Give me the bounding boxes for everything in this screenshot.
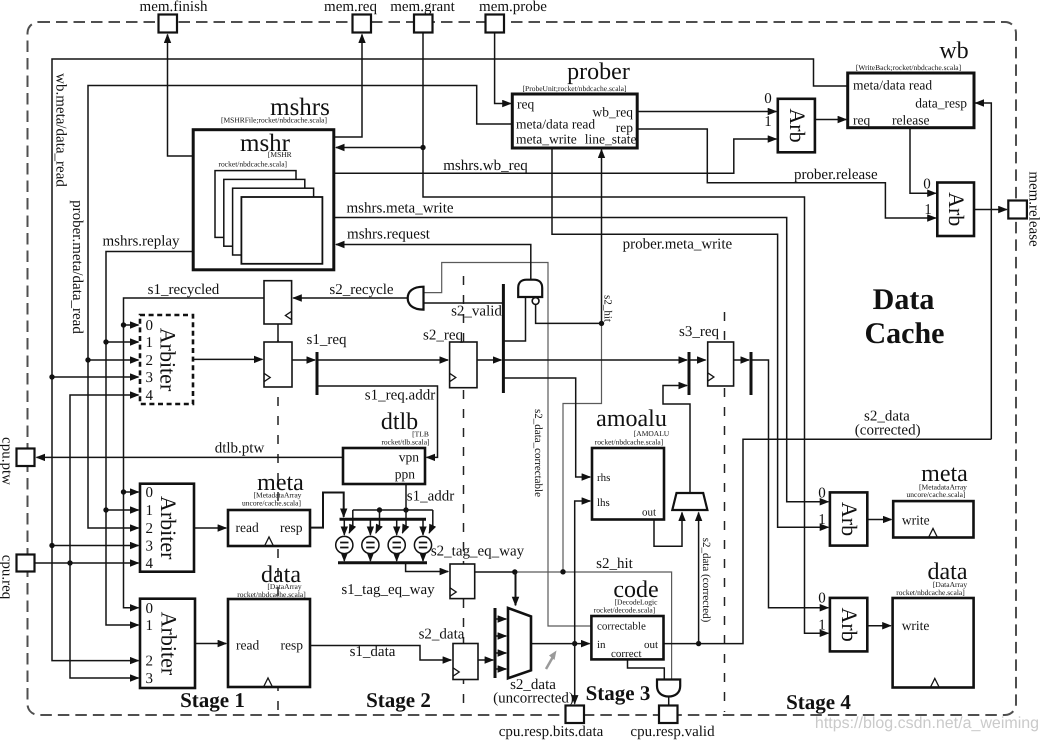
svg-text:Arb: Arb: [944, 192, 969, 226]
svg-text:write: write: [902, 513, 930, 528]
svg-text:uncore/cache.scala]: uncore/cache.scala]: [242, 499, 301, 508]
svg-text:Arb: Arb: [837, 502, 862, 536]
svg-text:req: req: [853, 113, 870, 128]
svg-text:1: 1: [146, 618, 154, 634]
svg-text:3: 3: [146, 370, 154, 386]
svg-text:mem.grant: mem.grant: [390, 0, 455, 15]
svg-text:cpu.req: cpu.req: [0, 555, 15, 600]
svg-text:0: 0: [146, 485, 154, 501]
svg-text:prober: prober: [567, 59, 630, 85]
svg-text:4: 4: [146, 556, 154, 572]
svg-text:prober.meta/data_read: prober.meta/data_read: [69, 200, 85, 334]
svg-text:ppn: ppn: [395, 467, 416, 482]
svg-text:cpu.ptw: cpu.ptw: [0, 437, 15, 485]
svg-text:Data: Data: [873, 283, 935, 316]
svg-text:vpn: vpn: [399, 450, 420, 465]
svg-text:s1_recycled: s1_recycled: [148, 282, 220, 298]
svg-text:wb_req: wb_req: [593, 105, 634, 120]
svg-text:Stage 3: Stage 3: [586, 681, 651, 705]
svg-text:mem.req: mem.req: [324, 0, 377, 15]
svg-text:s1_tag_eq_way: s1_tag_eq_way: [341, 582, 435, 598]
svg-text:Stage 1: Stage 1: [180, 688, 245, 712]
svg-text:rocket/decode.scala]: rocket/decode.scala]: [594, 606, 655, 615]
svg-text:0: 0: [146, 318, 154, 334]
svg-text:read: read: [236, 638, 259, 653]
svg-text:[MSHR: [MSHR: [268, 150, 292, 159]
svg-text:resp: resp: [280, 520, 303, 535]
svg-text:mshrs.meta_write: mshrs.meta_write: [346, 201, 453, 217]
svg-text:s2_hit: s2_hit: [602, 295, 614, 322]
svg-text:1: 1: [146, 503, 154, 519]
svg-text:3: 3: [146, 539, 154, 555]
svg-text:Arb: Arb: [837, 607, 862, 641]
svg-text:rhs: rhs: [597, 472, 610, 484]
svg-text:0: 0: [923, 177, 931, 193]
svg-text:in: in: [597, 639, 606, 651]
svg-text:rocket/nbdcache.scala]: rocket/nbdcache.scala]: [237, 590, 306, 599]
svg-text:release: release: [892, 113, 929, 128]
svg-text:s1_addr: s1_addr: [407, 489, 455, 505]
svg-text:s2_data: s2_data: [419, 627, 465, 643]
svg-text:s1_req.addr: s1_req.addr: [365, 388, 435, 404]
svg-text:0: 0: [818, 591, 826, 607]
svg-text:wb: wb: [939, 38, 968, 64]
svg-text:correctable: correctable: [597, 621, 646, 633]
svg-text:0: 0: [818, 486, 826, 502]
svg-text:Cache: Cache: [865, 317, 945, 350]
svg-text:rocket/nbdcache.scala]: rocket/nbdcache.scala]: [896, 588, 965, 597]
svg-text:req: req: [517, 97, 534, 112]
svg-text:Arbiter: Arbiter: [156, 496, 181, 560]
svg-text:1: 1: [818, 618, 826, 634]
svg-text:write: write: [902, 618, 930, 633]
svg-text:cpu.resp.bits.data: cpu.resp.bits.data: [499, 724, 604, 740]
svg-text:s2_hit: s2_hit: [596, 556, 634, 572]
svg-text:line_state: line_state: [585, 132, 637, 147]
svg-text:s2_valid: s2_valid: [451, 304, 502, 320]
svg-text:rocket/tlb.scala]: rocket/tlb.scala]: [381, 438, 429, 447]
svg-text:mem.probe: mem.probe: [479, 0, 547, 15]
svg-text:wb.meta/data_read: wb.meta/data_read: [53, 73, 69, 187]
svg-text:1: 1: [818, 512, 826, 528]
svg-text:1: 1: [146, 335, 154, 351]
svg-text:1: 1: [764, 114, 772, 130]
svg-text:0: 0: [146, 601, 154, 617]
svg-text:s2_tag_eq_way: s2_tag_eq_way: [431, 544, 525, 560]
svg-text:meta/data read: meta/data read: [853, 78, 932, 93]
svg-text:lhs: lhs: [597, 497, 610, 509]
svg-text:mshrs.wb_req: mshrs.wb_req: [443, 158, 528, 174]
svg-text:Arbiter: Arbiter: [156, 328, 181, 392]
svg-text:prober.release: prober.release: [794, 167, 878, 183]
svg-text:[ProbeUnit;rocket/nbdcache.sca: [ProbeUnit;rocket/nbdcache.scala]: [523, 84, 627, 93]
svg-text:s1_data: s1_data: [350, 644, 396, 660]
svg-text:mem.release: mem.release: [1026, 171, 1042, 247]
svg-text:s2_data (corrected): s2_data (corrected): [700, 538, 712, 623]
svg-text:Arb: Arb: [785, 108, 810, 142]
svg-text:[WriteBack;rocket/nbdcache.sca: [WriteBack;rocket/nbdcache.scala]: [856, 63, 961, 72]
svg-text:3: 3: [146, 671, 154, 687]
svg-text:2: 2: [146, 353, 154, 369]
svg-text:dtlb.ptw: dtlb.ptw: [215, 441, 265, 457]
svg-text:Stage 4: Stage 4: [786, 690, 851, 714]
svg-text:s2_data_correctable: s2_data_correctable: [532, 409, 544, 497]
svg-text:uncore/cache.scala]: uncore/cache.scala]: [907, 490, 966, 499]
svg-text:rocket/nbdcache.scala]: rocket/nbdcache.scala]: [595, 438, 664, 447]
svg-text:0: 0: [764, 91, 772, 107]
svg-text:[MSHRFile;rocket/nbdcache.scal: [MSHRFile;rocket/nbdcache.scala]: [221, 116, 327, 125]
svg-text:prober.meta_write: prober.meta_write: [623, 237, 733, 253]
svg-text:cpu.resp.valid: cpu.resp.valid: [630, 724, 715, 740]
svg-text:(uncorrected): (uncorrected): [493, 691, 574, 707]
svg-text:(corrected): (corrected): [855, 423, 921, 439]
svg-text:out: out: [642, 507, 656, 519]
svg-text:read: read: [236, 520, 259, 535]
svg-text:2: 2: [146, 654, 154, 670]
svg-text:resp: resp: [281, 638, 304, 653]
svg-text:correct: correct: [611, 648, 642, 660]
svg-text:s2_recycle: s2_recycle: [329, 282, 393, 298]
svg-text:meta_write: meta_write: [516, 132, 577, 147]
svg-text:Arbiter: Arbiter: [157, 612, 182, 676]
svg-text:meta/data read: meta/data read: [516, 117, 595, 132]
svg-text:out: out: [644, 639, 658, 651]
svg-text:rocket/nbdcache.scala]: rocket/nbdcache.scala]: [219, 160, 288, 169]
svg-text:https://blog.csdn.net/a_weimin: https://blog.csdn.net/a_weiming: [815, 715, 1039, 732]
svg-text:mshrs.request: mshrs.request: [347, 227, 431, 243]
svg-text:Stage 2: Stage 2: [366, 688, 431, 712]
svg-text:s1_req: s1_req: [307, 332, 347, 348]
svg-text:mshrs.replay: mshrs.replay: [102, 234, 180, 250]
svg-text:2: 2: [146, 521, 154, 537]
svg-text:s3_req: s3_req: [679, 324, 719, 340]
svg-text:mem.finish: mem.finish: [140, 0, 208, 15]
svg-text:s2_req: s2_req: [423, 328, 463, 344]
svg-text:1: 1: [924, 202, 932, 218]
svg-text:data_resp: data_resp: [915, 96, 967, 111]
svg-text:4: 4: [146, 388, 154, 404]
